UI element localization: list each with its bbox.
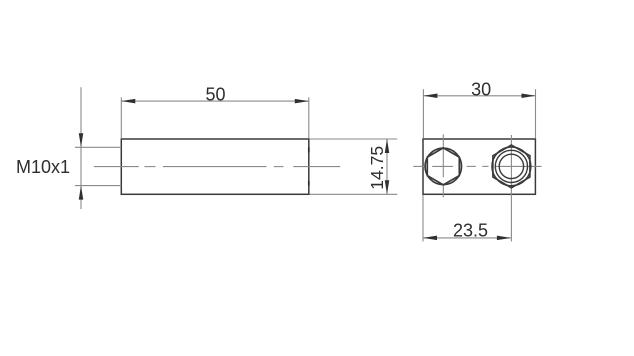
dimension M10x1: dimension line (vertical) [80,87,82,209]
dimension 50: right arrowhead [295,99,309,104]
thread end tick lower (right edge of side view) [308,181,310,186]
dimension 30: left arrowhead [423,94,437,99]
threaded hole centerline (vertical, also 23.5 extension line) [510,135,512,241]
dimension 50: dimension line [121,100,308,102]
dimension 14.75: extension lines [310,139,398,194]
dimension M10x1: lower extension line [75,185,121,187]
dimension 23.5: left extension line [422,195,424,242]
svg-text:M10x1: M10x1 [16,157,70,177]
threaded hole: hexagon [493,145,530,188]
dimension 23.5: left arrowhead [423,236,437,241]
body outline (end view, right) [423,139,535,194]
hex socket centerline (vertical) [442,134,444,197]
centerline (end view horizontal axis) [413,165,541,167]
dimension 14.75: dimension line (vertical) [386,139,388,194]
dimension 23.5: right arrowhead [497,236,511,241]
threaded hole: thread major circle [495,150,527,182]
dimension 30: extension lines [423,89,535,138]
dimension 14.75: bottom arrowhead [385,180,390,194]
dimension M10x1: upper extension line [75,146,121,148]
dimension 23.5: dimension line [423,237,511,239]
dimension 50: left arrowhead [121,99,135,104]
hex socket: hexagon [427,148,459,185]
body outline (side view, left) [121,139,308,194]
svg-text:14.75: 14.75 [367,146,387,190]
hex socket: chamfer circle [425,148,462,185]
dimension M10x1: lower arrowhead (points up) [79,186,84,200]
dimension 30: right arrowhead [522,94,536,99]
dimension 30: dimension line [423,95,535,97]
dimension M10x1: upper arrowhead (points down) [79,133,84,147]
dimension 50: extension lines [121,97,308,138]
centerline (side view axis) [94,166,340,168]
threaded hole: chamfer circle [492,147,531,186]
thread end tick upper (right edge of side view) [308,147,310,152]
dimension 14.75: top arrowhead [385,139,390,153]
svg-text:50: 50 [205,85,225,105]
svg-text:23.5: 23.5 [453,221,488,241]
svg-text:30: 30 [471,80,491,100]
threaded hole: thread minor circle [499,154,523,178]
